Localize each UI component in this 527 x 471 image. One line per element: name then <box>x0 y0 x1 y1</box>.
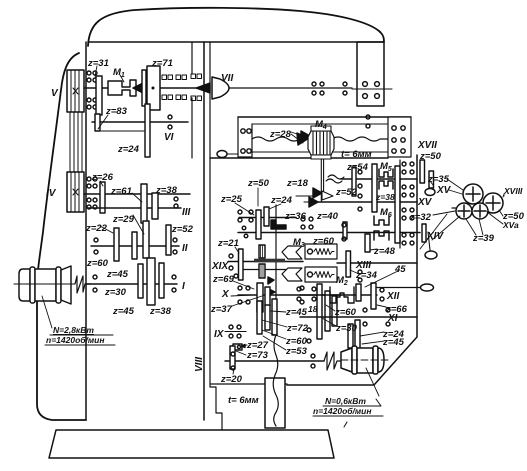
chevron clutch M3 lower <box>282 268 302 281</box>
leader z=26 <box>100 181 103 186</box>
handwheel big 2 <box>483 193 503 213</box>
small dark flags <box>268 277 274 284</box>
svg-text:VIII: VIII <box>194 357 205 372</box>
gear z=21 <box>239 249 244 280</box>
svg-text:z=45: z=45 <box>112 306 135 317</box>
svg-text:z=25: z=25 <box>220 194 243 205</box>
svg-text:XVa: XVa <box>502 220 519 230</box>
svg-text:18: 18 <box>308 304 318 314</box>
gear z=69 <box>257 283 263 312</box>
gear z=35 <box>429 171 434 188</box>
right bracket <box>388 117 411 157</box>
svg-text:z=31: z=31 <box>87 58 109 69</box>
shaft III line <box>88 207 181 209</box>
shaft I line <box>86 283 177 285</box>
handle ellipse left <box>217 151 227 158</box>
svg-text:z=73: z=73 <box>246 350 269 361</box>
svg-text:z=21: z=21 <box>217 238 239 249</box>
shaft IV line <box>84 193 190 195</box>
gear z=24 on VI <box>145 104 150 157</box>
bearing dots shaft IV <box>87 177 97 188</box>
rail top line <box>238 116 411 118</box>
svg-text:VI: VI <box>164 132 174 143</box>
svg-text:z=60: z=60 <box>312 236 335 247</box>
lead screw wavy line <box>252 137 312 141</box>
clutch M1 <box>108 80 136 96</box>
feed motor cone <box>341 348 352 372</box>
svg-text:VII: VII <box>221 73 233 84</box>
rail bottom long line <box>210 157 388 159</box>
shaft M5 top <box>341 178 417 180</box>
svg-text:z=52: z=52 <box>335 187 358 198</box>
spring box upper <box>305 244 337 259</box>
motor shaft line <box>14 283 75 285</box>
svg-text:z=20: z=20 <box>220 374 243 385</box>
feed motor body <box>357 348 373 373</box>
leader z=22 <box>100 226 113 233</box>
gear bar XIV small <box>422 224 426 242</box>
svg-text:z=32: z=32 <box>409 212 432 223</box>
feed motor ring 1 <box>352 346 357 374</box>
svg-text:IV: IV <box>46 188 57 199</box>
svg-text:z=71: z=71 <box>151 58 173 69</box>
hanging bracket top right <box>357 42 384 106</box>
svg-text:z=36: z=36 <box>284 211 307 222</box>
shaft XV <box>318 201 417 203</box>
leaders z24 z45 z66 <box>360 307 390 344</box>
gear cluster on IX (z72 z60 z53) <box>257 301 262 334</box>
svg-text:z=48: z=48 <box>373 246 396 257</box>
svg-text:z=29: z=29 <box>112 214 135 225</box>
svg-text:z=61: z=61 <box>110 186 132 197</box>
svg-text:z=50: z=50 <box>247 178 270 189</box>
knee bottom line <box>211 383 287 385</box>
leader z=20 <box>233 369 234 374</box>
svg-text:t= 6мм: t= 6мм <box>228 395 259 406</box>
small handle ellipse <box>425 189 435 196</box>
svg-text:45: 45 <box>394 264 406 275</box>
handle rod XII <box>377 287 420 289</box>
handle loop XIV <box>428 232 430 250</box>
leader z=61 <box>132 193 142 202</box>
leader z=25 <box>235 203 254 215</box>
gear z=37 <box>265 287 270 306</box>
gear bar z=38b <box>372 164 377 212</box>
gear z=66 (extension of bar) <box>377 305 386 307</box>
gear z=83 small <box>95 114 100 131</box>
motor2 center dash <box>341 359 390 361</box>
leader z=50a <box>257 188 259 206</box>
gear z=31 <box>96 76 102 115</box>
arrow on shaft VII <box>133 84 142 93</box>
svg-text:z=30: z=30 <box>104 287 127 298</box>
svg-text:z=53: z=53 <box>285 346 308 357</box>
svg-text:z=45: z=45 <box>285 307 308 318</box>
leader arrows z27 z73 <box>236 345 247 355</box>
svg-text:XII: XII <box>386 291 399 302</box>
gear z=25 <box>256 210 261 239</box>
gear z=26 <box>100 182 105 213</box>
svg-text:n=1420об/мин: n=1420об/мин <box>313 406 372 416</box>
gear bar z=54 <box>352 167 356 196</box>
shaft XII <box>300 294 377 296</box>
lower bracket line <box>101 130 144 132</box>
svg-text:z=40: z=40 <box>316 211 339 222</box>
bearing dots shaft V <box>87 71 97 82</box>
right bearing bracket <box>399 160 401 248</box>
shaft XIV long <box>238 232 420 234</box>
pulley IV box <box>67 172 84 212</box>
svg-text:X: X <box>221 289 230 300</box>
svg-text:z=26: z=26 <box>91 172 114 183</box>
leader z=35 <box>430 181 433 185</box>
leaders z45 z72 z60 z53 z30 <box>262 305 336 350</box>
handwheel small 3 <box>456 203 472 219</box>
spring box lower <box>305 267 337 282</box>
svg-text:z=83: z=83 <box>105 106 128 117</box>
hatched gear below XIX <box>259 264 265 278</box>
column front band line 1 <box>203 42 205 420</box>
svg-text:z=45: z=45 <box>106 269 129 280</box>
leader z=31 <box>95 66 97 76</box>
svg-text:z=22: z=22 <box>85 223 108 234</box>
svg-text:XV: XV <box>417 197 433 208</box>
tall gear bar <box>395 166 400 243</box>
svg-text:XV: XV <box>436 185 452 196</box>
shaft X <box>238 294 341 296</box>
shaft XIII <box>337 262 417 264</box>
labels part 2 <box>194 151 525 416</box>
bearing dots spindle right <box>312 82 347 95</box>
gear z=45 on II <box>132 232 137 259</box>
svg-text:z=18: z=18 <box>286 178 309 189</box>
svg-text:z=60: z=60 <box>86 258 109 269</box>
svg-text:N=0,6кВт: N=0,6кВт <box>325 396 366 406</box>
svg-text:z=30: z=30 <box>335 323 358 334</box>
gear z=38 on III <box>152 193 158 219</box>
hatched gear above XIX <box>259 245 265 258</box>
gear z=73 bar <box>230 346 235 369</box>
claw clutch M6 <box>374 216 389 225</box>
gear z=29 <box>143 221 149 258</box>
svg-text:z=38: z=38 <box>149 306 172 317</box>
shaft II line <box>91 245 179 247</box>
svg-text:z=45: z=45 <box>382 337 405 348</box>
leader 45 diagonal <box>365 271 398 287</box>
gear bar 45 on XII <box>356 284 361 301</box>
IX bearing fraction line <box>225 331 246 333</box>
shaft XI <box>300 316 417 318</box>
leader to motor label <box>42 296 52 328</box>
gears z=24 z=45 on XI <box>348 324 353 348</box>
triple gear block on I <box>138 264 143 298</box>
leader z=21 <box>235 247 239 253</box>
knee elevating screw wavy <box>273 335 278 426</box>
svg-text:t= 6мм: t= 6мм <box>341 149 372 160</box>
jack housing <box>265 378 285 428</box>
svg-text:z=60: z=60 <box>334 307 357 318</box>
wide gear hub on XIX <box>254 259 285 263</box>
shaft XIX <box>228 261 303 263</box>
svg-text:z=72: z=72 <box>286 323 309 334</box>
knee elevating screw upper <box>275 205 277 335</box>
svg-text:z=38: z=38 <box>155 185 178 196</box>
column left edge <box>85 42 87 420</box>
svg-text:z=34: z=34 <box>355 270 378 281</box>
leader M1 <box>120 75 124 82</box>
svg-text:z=24: z=24 <box>270 195 293 206</box>
spindle arrow solid <box>196 83 210 93</box>
bearing block z=71 <box>147 66 160 110</box>
rail inner lines <box>252 123 388 125</box>
elbow lever <box>271 220 286 229</box>
leaders to handwheels <box>447 179 504 197</box>
top feed shaft upper <box>239 217 296 219</box>
leader z=28 double <box>291 132 306 143</box>
svg-text:z=24: z=24 <box>117 144 140 155</box>
gear z=48 <box>365 234 370 252</box>
gear bar right of elbow <box>343 222 347 239</box>
leader z=24b <box>269 204 281 209</box>
svg-text:XIX: XIX <box>211 261 229 272</box>
minus tick <box>452 207 456 209</box>
svg-text:z=69: z=69 <box>212 274 235 285</box>
bearing dots right section <box>297 170 390 326</box>
flexible coupling tilde <box>328 175 344 179</box>
mid gear bars (z45/18, z60, z30) <box>317 284 322 339</box>
clutch M4 assembly <box>297 133 309 145</box>
leader z=48 <box>370 249 377 250</box>
svg-text:z=28: z=28 <box>269 129 292 140</box>
feed motor end cap <box>378 348 384 372</box>
svg-text:z=35: z=35 <box>427 174 450 185</box>
svg-text:n=1420об/мин: n=1420об/мин <box>46 335 105 345</box>
leader z=29 <box>133 215 144 234</box>
motor2 underline 2 <box>313 416 383 427</box>
handwheel small 4 <box>472 203 488 219</box>
left casing curve <box>37 53 86 420</box>
handle loop XII <box>421 284 434 291</box>
vertical feed shaft from M4 (double line) <box>321 159 323 202</box>
bearing dots gearbox <box>93 197 178 292</box>
leaders z=69 z=37 X <box>231 281 262 306</box>
bevel gear pair <box>313 188 322 198</box>
claw clutch M2 <box>330 287 354 303</box>
svg-text:XVII: XVII <box>417 140 437 151</box>
base plinth <box>49 430 334 458</box>
leader z=83 <box>98 115 108 129</box>
gear bar on XIII <box>346 251 351 277</box>
machine head dome outline <box>88 8 384 46</box>
svg-text:z=50: z=50 <box>419 151 442 162</box>
gear z=50a <box>264 207 269 226</box>
leader z=34 <box>350 270 359 274</box>
gear z=52 <box>166 225 171 255</box>
svg-text:N=2,8кВт: N=2,8кВт <box>53 325 94 335</box>
motor2 underline 1 <box>323 399 381 406</box>
bearing dots feed left column <box>229 210 350 370</box>
svg-text:XI: XI <box>387 313 398 324</box>
svg-text:z=54: z=54 <box>346 162 369 173</box>
bearing squares spindle <box>162 74 202 101</box>
gear z=61 <box>141 184 147 223</box>
column front band line 2 <box>210 42 222 430</box>
svg-text:I: I <box>182 281 185 292</box>
labels part 1 <box>46 58 437 345</box>
bracket lines beside column <box>191 42 193 158</box>
lower feed shaft line <box>241 269 288 271</box>
knee right edge <box>287 155 417 385</box>
spindle shaft right <box>229 87 352 89</box>
svg-text:z=37: z=37 <box>210 304 233 315</box>
left bracket <box>238 117 252 157</box>
chevron clutch M3 upper <box>282 246 302 259</box>
svg-text:XVIII: XVIII <box>503 186 523 196</box>
svg-text:II: II <box>182 243 188 254</box>
motor M body <box>19 269 30 301</box>
gear z=22 <box>114 228 119 261</box>
leader diagonals to XIV <box>420 214 460 249</box>
svg-text:III: III <box>182 207 191 218</box>
feed motor ring 2 <box>373 346 378 374</box>
head bottom line <box>88 41 384 43</box>
shaft VII line <box>84 87 196 89</box>
shaft VII stub through bracket <box>352 88 392 90</box>
svg-text:z=38: z=38 <box>375 192 395 202</box>
svg-text:XIV: XIV <box>426 231 444 242</box>
handwheel XVIII big 1 <box>463 184 483 204</box>
leader motor2 <box>366 368 379 396</box>
IX coupling zigzag <box>324 352 341 370</box>
pulley V box <box>67 70 84 112</box>
bracket bolt holes <box>363 82 380 99</box>
shaft VI line <box>92 121 188 123</box>
spindle nose cone VII <box>212 77 229 99</box>
gear z=27 bracket <box>233 344 242 350</box>
svg-text:z=52: z=52 <box>171 224 194 235</box>
shaft IX <box>225 360 324 362</box>
gear z=50 top right <box>420 160 425 183</box>
motor1 label underlines <box>45 335 115 345</box>
belt lines <box>70 112 82 172</box>
dots VI <box>168 115 370 129</box>
claw clutch M5 <box>379 169 393 177</box>
gear bar beside z71 <box>142 70 146 106</box>
svg-text:IX: IX <box>214 329 225 340</box>
coupling zigzag <box>75 276 85 293</box>
svg-text:z=39: z=39 <box>472 233 495 244</box>
